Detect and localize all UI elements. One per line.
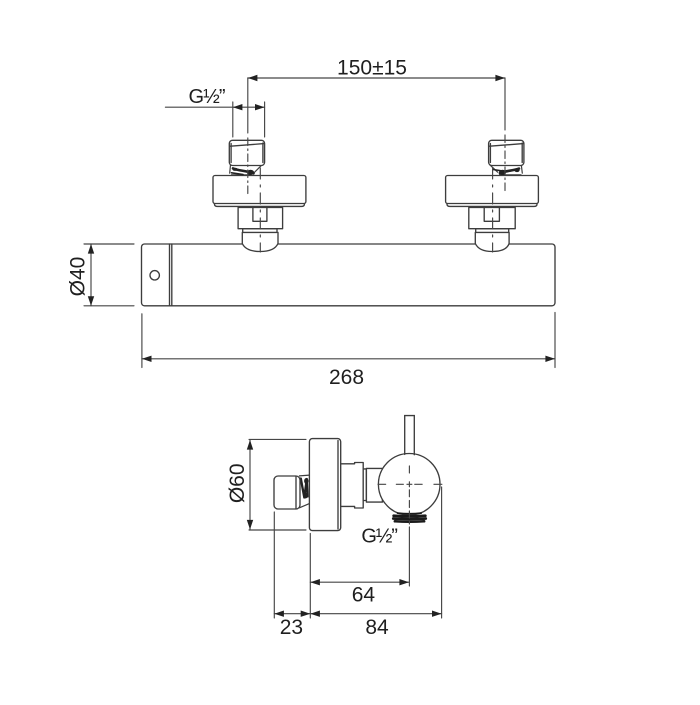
left valve top axis centerline [247, 78, 249, 196]
side view knob joint hatch [299, 475, 309, 508]
arrowheads [88, 75, 555, 617]
left valve block notch [253, 207, 267, 221]
arrow O60 bottom [247, 520, 253, 530]
side view crosshair centerlines [378, 466, 442, 524]
arrow G1/2 right [255, 104, 265, 110]
side view adapter piece [366, 468, 382, 502]
svg-text:G½”: G½” [189, 86, 225, 108]
svg-text:23: 23 [280, 616, 303, 639]
svg-text:150±15: 150±15 [337, 57, 407, 80]
svg-text:268: 268 [329, 366, 364, 389]
arrow 84 left [310, 611, 320, 617]
right valve block notch [484, 207, 499, 221]
arrow 64 right [399, 579, 409, 585]
left valve body axis centerline [259, 168, 261, 252]
arrow 150 left [248, 75, 258, 81]
arrow 23 left [274, 611, 284, 617]
dimension Ø40 [84, 244, 134, 306]
arrow 23 right [301, 611, 311, 617]
dimension 23 and 84 [274, 487, 441, 618]
side view mounting nut [341, 463, 364, 509]
right valve block [469, 207, 515, 228]
left valve threaded nipple G1/2 [229, 140, 264, 165]
right valve eccentric union (hatched) [490, 165, 522, 175]
svg-text:G½”: G½” [361, 525, 397, 547]
side view lever stem [405, 416, 415, 455]
right valve top axis centerline [504, 78, 506, 192]
main bar body [142, 244, 556, 306]
dimension 268 [142, 313, 555, 368]
side view knob [274, 476, 300, 509]
dimension G1/2 top leader and arrows [165, 102, 264, 137]
side view wall flange disc [309, 439, 340, 531]
side view mixer ball body [378, 454, 440, 516]
dimension 150±15 line [248, 77, 505, 79]
screw hole on left cap [150, 271, 159, 280]
right valve dome [475, 232, 509, 251]
arrow 150 right [495, 75, 505, 81]
arrow O40 top [88, 244, 94, 254]
left valve collar band [243, 229, 277, 233]
svg-text:84: 84 [365, 616, 389, 639]
arrow G1/2 left [233, 104, 243, 110]
svg-text:Ø40: Ø40 [67, 257, 90, 297]
arrow O60 top [247, 440, 253, 450]
arrow 268 right [545, 356, 555, 362]
left valve flange [215, 204, 305, 207]
right valve collar band [476, 229, 509, 233]
arrow O40 bottom [88, 296, 94, 306]
svg-text:Ø60: Ø60 [226, 463, 249, 503]
left valve dome [242, 232, 278, 251]
dimension 64 [310, 534, 409, 619]
outlet axis extension [408, 527, 410, 586]
side view neck [363, 469, 366, 501]
left valve block [238, 207, 283, 228]
left valve eccentric union (hatched) [230, 165, 262, 175]
svg-text:64: 64 [352, 584, 376, 607]
dimension Ø60 [249, 439, 306, 530]
arrow 268 left [142, 356, 152, 362]
right valve body axis centerline [492, 168, 494, 252]
right valve threaded nipple G1/2 [489, 140, 524, 165]
arrow 64 left [310, 579, 320, 585]
side view outlet thread G1/2 [393, 513, 425, 522]
right valve flange [447, 204, 537, 207]
arrow 84 right [432, 611, 442, 617]
